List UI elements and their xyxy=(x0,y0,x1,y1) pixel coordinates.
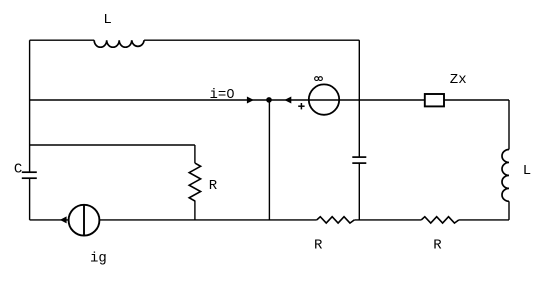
svg-text:R: R xyxy=(314,238,323,254)
svg-text:R: R xyxy=(433,238,442,254)
svg-text:R: R xyxy=(209,178,218,194)
svg-text:ig: ig xyxy=(90,251,107,267)
svg-text:Zx: Zx xyxy=(450,72,467,88)
svg-text:i=0: i=0 xyxy=(210,87,235,103)
svg-text:L: L xyxy=(103,12,111,28)
svg-text:L: L xyxy=(523,163,531,179)
svg-text:C: C xyxy=(14,161,22,177)
